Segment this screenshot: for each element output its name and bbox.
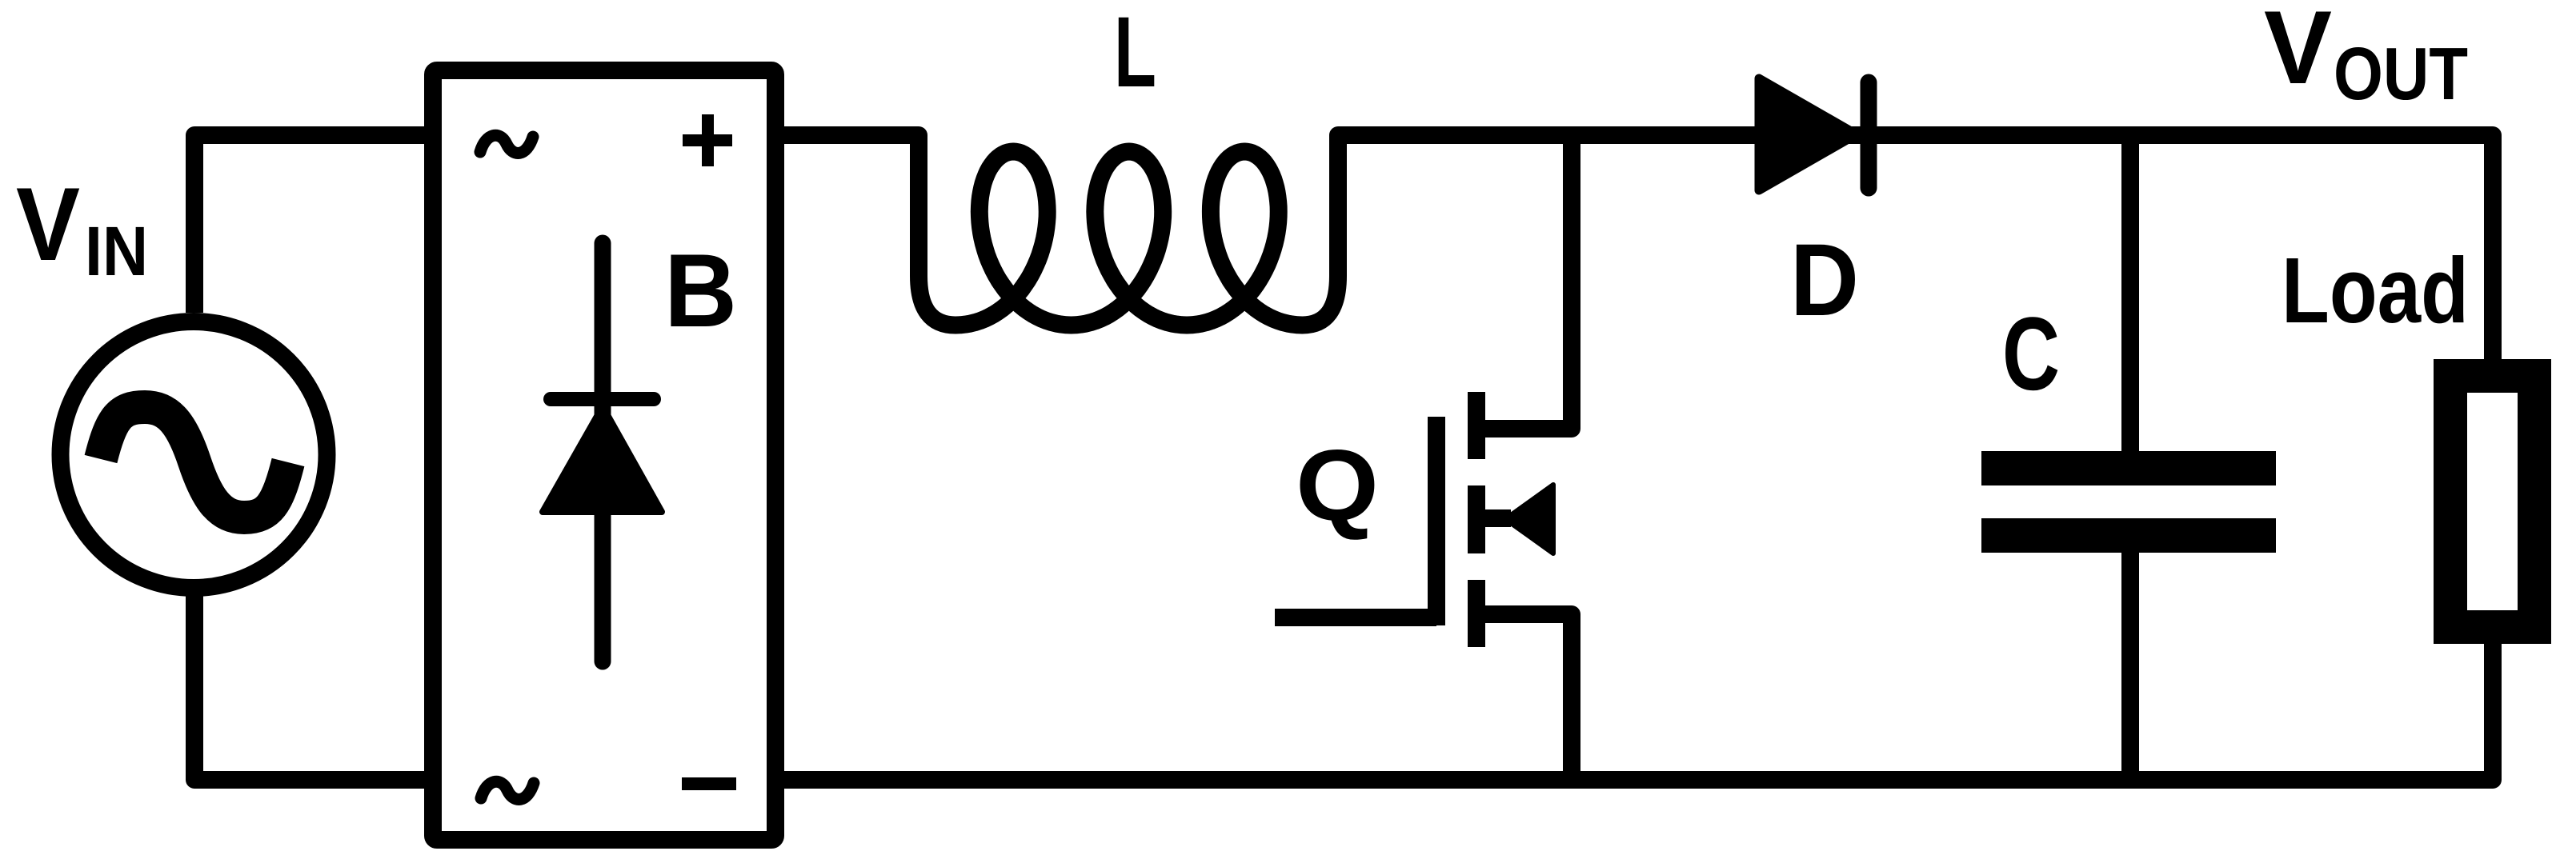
bridge rectifier B box [433, 70, 775, 840]
channel bottom segment [1468, 580, 1485, 647]
bridge diode [551, 243, 654, 661]
svg-text:Load: Load [2282, 238, 2469, 342]
channel mid segment [1468, 485, 1485, 553]
body stub [1476, 509, 1511, 527]
wire [2121, 135, 2139, 468]
svg-text:C: C [2002, 295, 2060, 412]
svg-text:V: V [16, 166, 80, 282]
sine symbol of source VIN [101, 407, 288, 517]
~ ac terminal bottom [481, 781, 534, 799]
- terminal [682, 777, 736, 790]
capacitor C [1981, 469, 2276, 536]
svg-text:Q: Q [1296, 429, 1379, 541]
svg-text:V: V [2264, 0, 2332, 106]
svg-text:IN: IN [85, 213, 148, 290]
wire gate lead [1275, 609, 1436, 626]
~ ac terminal top [480, 135, 533, 153]
transistor Q [1436, 392, 1511, 647]
inductor L with top rail wire [775, 135, 2493, 359]
wire [2121, 536, 2139, 780]
svg-text:OUT: OUT [2334, 32, 2468, 115]
resistor Load [2450, 376, 2534, 627]
gate bar [1428, 417, 1445, 625]
diode D triangle [1759, 78, 1857, 190]
node drain junction [1476, 132, 1572, 429]
svg-text:B: B [664, 232, 737, 349]
wire [1476, 614, 1572, 780]
body arrow [1505, 485, 1553, 553]
bridge diode triangle [543, 406, 662, 512]
diode D cathode bar [1861, 82, 1877, 188]
svg-text:D: D [1790, 223, 1859, 338]
voltage source VIN [61, 322, 327, 588]
wire [775, 644, 2493, 780]
channel top segment [1468, 392, 1485, 459]
wire [194, 596, 433, 780]
wire [194, 135, 433, 313]
+ terminal [683, 114, 732, 166]
svg-text:L: L [1114, 0, 1156, 108]
